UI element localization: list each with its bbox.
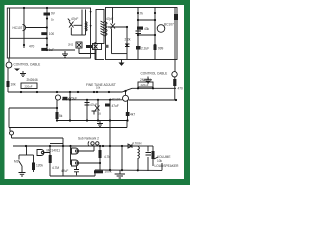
svg-text:2N2646: 2N2646: [140, 78, 151, 82]
svg-text:43k: 43k: [144, 27, 150, 31]
svg-text:470uF: 470uF: [68, 97, 77, 101]
svg-text:CONTROL CABLE: CONTROL CABLE: [14, 63, 41, 67]
svg-text:220uF: 220uF: [25, 84, 33, 88]
svg-text:100: 100: [49, 32, 55, 36]
svg-text:47pF: 47pF: [71, 17, 78, 21]
svg-text:1uF: 1uF: [49, 48, 55, 52]
svg-text:FINE TUNE ADJUST: FINE TUNE ADJUST: [86, 83, 116, 87]
svg-text:2N2646: 2N2646: [27, 78, 38, 82]
svg-text:47uF: 47uF: [61, 169, 68, 173]
svg-text:CONTROL CABLE: CONTROL CABLE: [141, 72, 168, 76]
svg-text:4.7M: 4.7M: [52, 166, 59, 170]
svg-text:4.7k: 4.7k: [104, 155, 110, 159]
svg-text:5k: 5k: [59, 114, 63, 118]
svg-text:47uF: 47uF: [90, 103, 97, 107]
svg-text:47uF: 47uF: [112, 104, 119, 108]
svg-text:4.7k: 4.7k: [137, 12, 143, 16]
svg-text:10k: 10k: [11, 83, 17, 87]
svg-text:220uF: 220uF: [141, 83, 149, 87]
svg-text:LOUDSPEAKER: LOUDSPEAKER: [155, 164, 180, 168]
svg-text:HC107: HC107: [13, 26, 23, 30]
svg-text:Sub Network 2: Sub Network 2: [78, 137, 99, 141]
svg-text:MC14011: MC14011: [47, 149, 61, 153]
svg-text:1u: 1u: [98, 112, 102, 116]
svg-text:120k: 120k: [36, 164, 43, 168]
svg-text:M1: M1: [14, 160, 19, 164]
svg-text:4k7: 4k7: [130, 113, 135, 117]
svg-text:10k: 10k: [96, 86, 101, 90]
svg-text:2.2uF: 2.2uF: [141, 47, 149, 51]
svg-text:470: 470: [178, 87, 184, 91]
svg-text:47pF: 47pF: [106, 17, 113, 21]
svg-text:4.7mH: 4.7mH: [132, 141, 142, 145]
svg-text:470: 470: [29, 45, 35, 49]
svg-text:100k: 100k: [105, 169, 112, 173]
svg-text:HC107: HC107: [111, 98, 121, 102]
svg-text:BC107: BC107: [164, 23, 174, 27]
svg-text:10k: 10k: [157, 159, 163, 163]
svg-text:2N2: 2N2: [68, 43, 74, 47]
svg-text:999: 999: [158, 47, 164, 51]
svg-text:2.2k: 2.2k: [125, 37, 131, 41]
